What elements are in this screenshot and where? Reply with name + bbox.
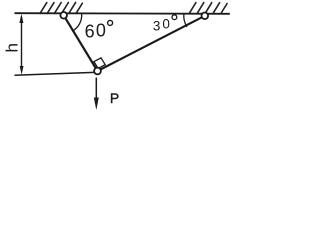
h dimension line <box>21 17 23 71</box>
60 deg angle arc <box>72 14 82 32</box>
svg-text:h: h <box>3 43 22 52</box>
ceiling hatching right group <box>189 3 227 14</box>
svg-text:6: 6 <box>85 22 95 42</box>
svg-text:3: 3 <box>153 18 161 33</box>
lower reference line <box>15 72 95 75</box>
ceiling line <box>15 12 230 15</box>
right-angle square at bottom pin <box>94 58 105 69</box>
bar right (30 deg member) <box>98 16 205 71</box>
pin left <box>60 12 67 19</box>
pin right <box>202 13 209 20</box>
svg-text:0: 0 <box>96 20 106 40</box>
load arrow P line <box>95 78 97 101</box>
svg-text:0: 0 <box>162 16 170 31</box>
svg-text:P: P <box>110 90 119 106</box>
pin bottom <box>94 68 101 75</box>
30 deg angle arc <box>184 13 187 27</box>
bar left (60 deg member) <box>64 15 98 71</box>
label 60 degrees: degree circle <box>108 20 113 25</box>
ceiling hatching left group <box>40 2 82 13</box>
label 30 degrees: degree circle <box>172 15 177 20</box>
h dimension arrowhead bottom <box>20 66 24 75</box>
h dimension arrowhead top <box>19 14 23 23</box>
load arrowhead <box>94 98 99 111</box>
